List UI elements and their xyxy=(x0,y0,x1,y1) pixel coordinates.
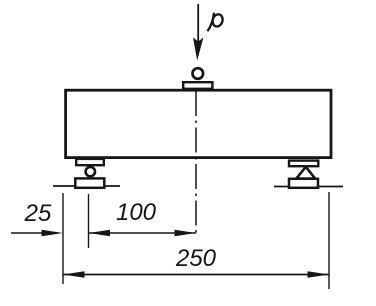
left support roller xyxy=(86,167,95,176)
extension line left (beam edge) xyxy=(62,193,64,284)
left support base plate xyxy=(75,178,104,187)
centerline xyxy=(195,91,197,233)
dimension 100 xyxy=(89,230,197,236)
load roller xyxy=(193,68,204,79)
extension line right (beam edge) xyxy=(328,192,330,289)
label P xyxy=(207,13,224,32)
dimension 250 xyxy=(63,271,329,277)
svg-text:25: 25 xyxy=(24,200,52,227)
left support top plate xyxy=(76,159,104,165)
dimension 25 leader xyxy=(11,230,63,236)
right support pin triangle xyxy=(296,167,315,179)
svg-text:100: 100 xyxy=(116,199,157,226)
right ground line xyxy=(274,186,343,188)
extension line left roller xyxy=(88,194,90,248)
right support top plate xyxy=(289,161,318,167)
right support base plate xyxy=(289,179,318,188)
load plate xyxy=(183,82,212,89)
beam xyxy=(66,90,331,157)
svg-text:250: 250 xyxy=(175,245,217,272)
force arrow P xyxy=(193,4,203,61)
left ground line xyxy=(53,185,120,187)
